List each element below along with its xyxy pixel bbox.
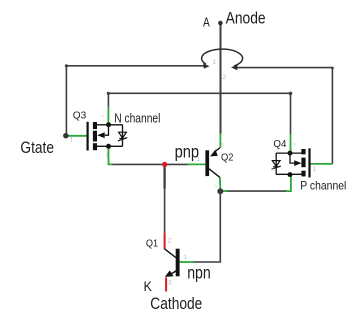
- svg-text:1: 1: [213, 60, 217, 66]
- svg-text:N channel: N channel: [114, 111, 160, 125]
- svg-text:~: ~: [293, 142, 297, 148]
- svg-text:Q4: Q4: [273, 138, 286, 150]
- svg-text:2: 2: [223, 75, 227, 81]
- svg-text:Q1: Q1: [146, 237, 158, 249]
- svg-text:npn: npn: [187, 262, 211, 282]
- svg-text:K: K: [144, 278, 153, 294]
- svg-text:2: 2: [168, 239, 172, 245]
- svg-text:Cathode: Cathode: [150, 294, 202, 313]
- svg-text:Q2: Q2: [221, 151, 234, 163]
- svg-text:1: 1: [313, 167, 317, 173]
- svg-text:~: ~: [215, 184, 219, 190]
- svg-text:Q3: Q3: [73, 110, 87, 122]
- svg-text:~: ~: [222, 142, 226, 148]
- svg-text:P channel: P channel: [300, 178, 346, 192]
- svg-text:Anode: Anode: [226, 9, 266, 28]
- svg-text:pnp: pnp: [175, 141, 200, 161]
- svg-text:1: 1: [70, 138, 74, 144]
- svg-text:A: A: [203, 14, 210, 29]
- svg-text:~: ~: [101, 114, 105, 120]
- svg-text:~: ~: [292, 178, 296, 184]
- svg-text:Gtate: Gtate: [20, 138, 54, 157]
- svg-text:1: 1: [184, 255, 188, 261]
- svg-text:3: 3: [168, 281, 172, 287]
